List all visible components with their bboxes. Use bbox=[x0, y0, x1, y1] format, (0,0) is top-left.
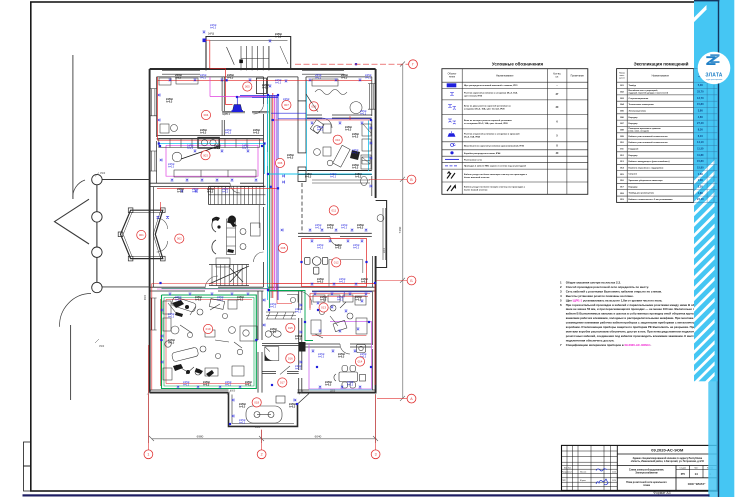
svg-text:8,30: 8,30 bbox=[698, 128, 704, 132]
svg-text:монтаже коробке расположив обе: монтаже коробке расположив обеспечить до… bbox=[566, 330, 702, 334]
svg-text:5,30: 5,30 bbox=[698, 83, 704, 87]
svg-text:Общие указания смотри на листа: Общие указания смотри на листах 2,3. bbox=[566, 280, 621, 284]
blue band right solid bbox=[708, 0, 719, 497]
svg-text:Щит распределительный навесной: Щит распределительный навесной с замком,… bbox=[464, 84, 518, 87]
binding marks bbox=[24, 442, 31, 466]
svg-text:ЩРБ-1: ЩРБ-1 bbox=[223, 113, 231, 116]
svg-text:розеточных кабелей, соединения: розеточных кабелей, соединения под кабел… bbox=[566, 334, 698, 338]
svg-text:Коробка распределительная, IP4: Коробка распределительная, IP44 bbox=[464, 152, 501, 155]
furniture rooms 015/016 bbox=[265, 295, 298, 361]
svg-text:h=0,3: h=0,3 bbox=[275, 36, 282, 39]
svg-text:14: 14 bbox=[695, 472, 699, 476]
svg-text:Способ прокладки розеточной се: Способ прокладки розеточной сети определ… bbox=[566, 285, 649, 289]
wire lilac loop room 014 bbox=[309, 322, 372, 390]
svg-text:Электроснабжение: Электроснабжение bbox=[635, 472, 658, 475]
svg-text:h=0,3: h=0,3 bbox=[357, 227, 364, 230]
svg-text:h=0,3: h=0,3 bbox=[289, 406, 296, 409]
svg-text:Розеточные сети: Розеточные сети bbox=[464, 159, 483, 161]
svg-text:яние не менее 50 мм, и при пер: яние не менее 50 мм, и при пересекающихс… bbox=[566, 307, 709, 311]
wire green loop room 019 bbox=[162, 295, 257, 389]
svg-text:13,70: 13,70 bbox=[697, 96, 704, 100]
svg-text:h=0,3: h=0,3 bbox=[327, 227, 334, 230]
furniture room 002 bbox=[212, 218, 260, 267]
building outer walls bbox=[150, 69, 387, 393]
svg-text:h=0,3: h=0,3 bbox=[245, 384, 252, 387]
svg-text:3: 3 bbox=[375, 453, 377, 457]
svg-text:011: 011 bbox=[331, 208, 336, 212]
svg-text:11.20: 11.20 bbox=[612, 480, 616, 482]
svg-text:Санузел: Санузел bbox=[629, 174, 638, 176]
svg-text:h=0,3: h=0,3 bbox=[355, 299, 362, 302]
svg-text:3xPШ: 3xPШ bbox=[208, 34, 214, 36]
svg-text:РП: РП bbox=[681, 472, 685, 476]
svg-text:h=0,3: h=0,3 bbox=[320, 299, 327, 302]
wire runs bbox=[152, 40, 375, 390]
svg-text:h=0,3: h=0,3 bbox=[325, 384, 332, 387]
logo circle bbox=[698, 52, 731, 85]
svg-text:Гардероб: Гардероб bbox=[629, 147, 640, 150]
svg-text:Кабинет рентгеновской стоматол: Кабинет рентгеновской стоматологии bbox=[629, 135, 669, 138]
band navy line bbox=[718, 0, 719, 497]
svg-text:ООО "ЗЛАТА": ООО "ЗЛАТА" bbox=[688, 482, 706, 486]
svg-text:Коридор: Коридор bbox=[629, 117, 639, 119]
svg-text:h=0,3: h=0,3 bbox=[200, 77, 207, 80]
svg-text:h=0,3: h=0,3 bbox=[175, 299, 182, 302]
svg-text:h=0,3: h=0,3 bbox=[192, 191, 199, 194]
svg-text:4,60: 4,60 bbox=[698, 115, 704, 119]
svg-text:1,60: 1,60 bbox=[698, 172, 704, 176]
svg-text:Тамбур для размещения: Тамбур для размещения bbox=[629, 192, 655, 195]
svg-text:шт.: шт. bbox=[556, 77, 560, 79]
svg-text:1,30: 1,30 bbox=[698, 178, 704, 182]
svg-text:Высоты установки розеток показ: Высоты установки розеток показаны на пла… bbox=[566, 294, 634, 298]
svg-text:27,40: 27,40 bbox=[697, 121, 704, 125]
wire cyan corridor run bbox=[268, 173, 372, 175]
svg-text:Кабель уходит на более высокую: Кабель уходит на более высокую отметку и… bbox=[464, 173, 528, 176]
logo Z glyphs bbox=[706, 54, 719, 65]
svg-text:h=0,3: h=0,3 bbox=[355, 176, 362, 179]
svg-text:цвет белый, IP20: цвет белый, IP20 bbox=[464, 95, 483, 98]
svg-text:003: 003 bbox=[203, 153, 208, 157]
svg-text:h=0,3: h=0,3 bbox=[295, 338, 302, 341]
interior walls bbox=[150, 77, 376, 393]
svg-text:область, Ивановский район, п.З: область, Ивановский район, п.Загорский, … bbox=[631, 460, 705, 463]
svg-text:h=0,3: h=0,3 bbox=[361, 281, 368, 284]
svg-text:h=0,3: h=0,3 bbox=[222, 191, 229, 194]
svg-text:h=0,3: h=0,3 bbox=[210, 27, 217, 30]
svg-text:2К+З, 16А, IP44: 2К+З, 16А, IP44 bbox=[464, 136, 481, 139]
svg-text:h=0,3: h=0,3 bbox=[352, 136, 359, 139]
svg-text:h=0,3: h=0,3 bbox=[175, 77, 182, 80]
svg-text:Стадия: Стадия bbox=[679, 467, 685, 469]
svg-text:Разработал: Разработал bbox=[562, 472, 572, 474]
svg-text:1500: 1500 bbox=[255, 427, 261, 429]
svg-text:h=0,3: h=0,3 bbox=[352, 167, 359, 170]
room number circles bbox=[137, 230, 146, 239]
svg-text:Коридор: Коридор bbox=[629, 155, 639, 157]
svg-text:14,10: 14,10 bbox=[697, 140, 704, 144]
svg-text:h=0,3: h=0,3 bbox=[353, 247, 360, 250]
svg-text:Тамбур: Тамбур bbox=[629, 84, 637, 87]
svg-text:Электрощитовая: Электрощитовая bbox=[629, 110, 647, 112]
svg-text:h=0,3: h=0,3 bbox=[341, 227, 348, 230]
svg-text:Розетка скрытой установки с шт: Розетка скрытой установки с шторками 2К+… bbox=[464, 92, 518, 95]
furniture room 019 bbox=[163, 296, 244, 380]
svg-text:h=0,3: h=0,3 bbox=[168, 166, 175, 169]
stair block top bbox=[206, 37, 291, 71]
svg-text:Лист: Лист bbox=[694, 467, 698, 469]
dark clusters room 019 bbox=[172, 300, 189, 317]
svg-text:студия проектирования: студия проектирования bbox=[706, 79, 723, 81]
svg-text:Спецификацию материалов прибор: Спецификацию материалов приборов в 09.20… bbox=[566, 343, 652, 347]
junction boxes bbox=[267, 94, 269, 96]
svg-text:Обозна-: Обозна- bbox=[448, 74, 457, 76]
legend symbols bbox=[445, 84, 459, 166]
svg-text:h=0,3: h=0,3 bbox=[168, 316, 175, 319]
svg-text:h=0,3: h=0,3 bbox=[335, 247, 342, 250]
furniture room 009 bbox=[306, 79, 362, 114]
svg-text:Кабинет стоматологии с 3-мя ус: Кабинет стоматологии с 3-мя установками bbox=[629, 198, 674, 201]
svg-text:h=0,3: h=0,3 bbox=[225, 384, 232, 387]
svg-text:h=0,3: h=0,3 bbox=[337, 299, 344, 302]
svg-text:Наименование: Наименование bbox=[652, 74, 670, 77]
svg-text:h=0,3: h=0,3 bbox=[207, 191, 214, 194]
svg-text:11,80: 11,80 bbox=[697, 153, 704, 157]
svg-text:4820: 4820 bbox=[145, 294, 147, 300]
svg-text:Кол.: Кол. bbox=[568, 467, 572, 469]
svg-text:6,10: 6,10 bbox=[698, 134, 704, 138]
svg-text:3,20: 3,20 bbox=[698, 184, 704, 188]
svg-text:019: 019 bbox=[206, 327, 211, 331]
table lines over band bbox=[694, 69, 718, 203]
svg-text:Иванов: Иванов bbox=[580, 472, 586, 474]
svg-text:этажа: этажа bbox=[643, 484, 651, 487]
footer navy line bbox=[23, 494, 710, 496]
svg-text:7460: 7460 bbox=[398, 226, 402, 233]
svg-text:h=0,3: h=0,3 bbox=[239, 422, 246, 425]
svg-text:Здание специализированной клин: Здание специализированной клиники по адр… bbox=[633, 457, 703, 460]
svg-text:15,80: 15,80 bbox=[697, 165, 704, 169]
svg-text:h=0,3: h=0,3 bbox=[287, 157, 294, 160]
svg-text:h=0,3: h=0,3 bbox=[214, 147, 221, 150]
svg-text:Условные обозначения: Условные обозначения bbox=[492, 62, 544, 67]
svg-text:1: 1 bbox=[147, 453, 149, 457]
svg-text:h=0,3: h=0,3 bbox=[341, 77, 348, 80]
riser bundle bbox=[268, 93, 278, 308]
svg-text:014: 014 bbox=[358, 360, 363, 364]
svg-text:h=0,3: h=0,3 bbox=[237, 299, 244, 302]
svg-text:h=0,3: h=0,3 bbox=[242, 147, 249, 150]
black furniture blobs room 002 bbox=[212, 216, 237, 229]
red axis connectors bbox=[148, 64, 408, 450]
svg-text:h=0,3: h=0,3 bbox=[305, 176, 312, 179]
svg-text:007: 007 bbox=[284, 103, 289, 107]
misc black leaders bbox=[306, 94, 371, 133]
svg-text:со шторками 2К+З, 16А, цвет бе: со шторками 2К+З, 16А, цвет белый, IP20 bbox=[464, 122, 508, 125]
furniture room 018 bbox=[246, 396, 285, 423]
svg-text:012: 012 bbox=[334, 260, 339, 264]
furniture room 003 counter bbox=[159, 138, 260, 342]
svg-text:h=0,3: h=0,3 bbox=[168, 342, 175, 345]
svg-text:013: 013 bbox=[321, 306, 326, 310]
svg-text:h=0,3: h=0,3 bbox=[318, 356, 325, 359]
svg-text:Коридор: Коридор bbox=[629, 186, 639, 188]
svg-text:Выключатель скрытой установки: Выключатель скрытой установки одноклавиш… bbox=[464, 145, 525, 148]
svg-text:017: 017 bbox=[280, 381, 285, 385]
svg-text:h=0,3: h=0,3 bbox=[317, 281, 324, 284]
svg-text:Коридор: Коридор bbox=[629, 123, 639, 125]
svg-text:3,80: 3,80 bbox=[698, 109, 704, 113]
svg-text:h=0,3: h=0,3 bbox=[365, 77, 372, 80]
svg-text:коробами. Отключающие приборы: коробами. Отключающие приборы защитного … bbox=[566, 325, 696, 329]
small dim texts bbox=[99, 173, 386, 429]
svg-text:Кол-во,: Кол-во, bbox=[553, 74, 561, 76]
svg-text:1500: 1500 bbox=[99, 346, 105, 348]
svg-text:h=0,3: h=0,3 bbox=[270, 306, 277, 309]
svg-text:001: 001 bbox=[139, 233, 144, 237]
svg-text:008: 008 bbox=[281, 246, 286, 250]
svg-text:Г: Г bbox=[412, 63, 414, 67]
svg-text:11,50: 11,50 bbox=[697, 146, 704, 150]
svg-text:15,80: 15,80 bbox=[697, 159, 704, 163]
svg-text:Щит ЩРБ-1 устанавливать на выс: Щит ЩРБ-1 устанавливать на высоте 1,8м о… bbox=[566, 298, 663, 302]
door arcs bbox=[157, 104, 350, 374]
svg-text:h=0,3: h=0,3 bbox=[183, 384, 190, 387]
svg-text:Хранение уборочного инвентаря: Хранение уборочного инвентаря bbox=[629, 179, 664, 182]
entrance protrusion 018 bbox=[229, 393, 310, 427]
svg-text:015: 015 bbox=[288, 326, 293, 330]
svg-text:h=0,3: h=0,3 bbox=[217, 299, 224, 302]
svg-text:h=0,3: h=0,3 bbox=[225, 132, 232, 135]
svg-text:h=0,3: h=0,3 bbox=[270, 331, 277, 334]
svg-text:h=0,3: h=0,3 bbox=[295, 311, 302, 314]
svg-text:h=0,3: h=0,3 bbox=[338, 356, 345, 359]
svg-text:h=0,3: h=0,3 bbox=[262, 87, 269, 90]
svg-text:Примечание: Примечание bbox=[571, 76, 585, 78]
svg-text:002: 002 bbox=[177, 237, 182, 241]
svg-text:h=0,3: h=0,3 bbox=[347, 384, 354, 387]
socket above stair bbox=[203, 39, 207, 43]
svg-text:более низкой отметки: более низкой отметки bbox=[464, 189, 488, 192]
svg-text:Кабинет заведующего (рентгенка: Кабинет заведующего (рентгенкабинет) bbox=[629, 160, 670, 163]
svg-text:более высокой отметки: более высокой отметки bbox=[464, 176, 490, 179]
svg-text:33,70: 33,70 bbox=[697, 90, 704, 94]
svg-text:h=0,3: h=0,3 bbox=[360, 113, 367, 116]
svg-text:6980: 6980 bbox=[197, 435, 204, 439]
svg-text:Комната персонала с гардеробом: Комната персонала с гардеробом bbox=[629, 166, 664, 169]
svg-text:Блок из двух розеток скрытой у: Блок из двух розеток скрытой установки с… bbox=[464, 104, 512, 107]
svg-text:15,80: 15,80 bbox=[697, 102, 704, 106]
svg-text:h=0,3: h=0,3 bbox=[345, 129, 352, 132]
svg-text:09.2020-АС-ЭОМ: 09.2020-АС-ЭОМ bbox=[651, 448, 684, 453]
svg-text:h=0,3: h=0,3 bbox=[315, 227, 322, 230]
svg-text:h=0,3: h=0,3 bbox=[352, 152, 359, 155]
svg-text:4,80: 4,80 bbox=[698, 191, 704, 195]
svg-text:Розетка открытой установки с ш: Розетка открытой установки с шторками и … bbox=[464, 133, 520, 136]
blue band inner bbox=[694, 0, 719, 381]
svg-text:h=0,3: h=0,3 bbox=[275, 82, 282, 85]
boiler in bay bbox=[377, 215, 384, 222]
wire magenta loop room 003 bbox=[166, 145, 258, 176]
svg-text:Проводка в кабеле ПВС скрыто в: Проводка в кабеле ПВС скрыто в стенах по… bbox=[464, 165, 527, 168]
furniture room 013 bbox=[311, 295, 367, 338]
closet partition room 012 bbox=[329, 260, 363, 288]
svg-text:004: 004 bbox=[204, 113, 209, 117]
svg-text:Техническое помещение: Техническое помещение bbox=[629, 104, 655, 106]
svg-text:006: 006 bbox=[278, 161, 283, 165]
hexagon tambour 001 bbox=[118, 208, 165, 261]
svg-text:2900: 2900 bbox=[384, 247, 386, 253]
svg-text:h=0,3: h=0,3 bbox=[200, 132, 207, 135]
svg-text:Стерилизационная: Стерилизационная bbox=[629, 98, 649, 100]
svg-text:h=0,3: h=0,3 bbox=[187, 147, 194, 150]
svg-text:h=0,3: h=0,3 bbox=[317, 129, 324, 132]
svg-text:Экспликация помещений: Экспликация помещений bbox=[634, 62, 689, 67]
windows bbox=[150, 71, 386, 330]
svg-text:2: 2 bbox=[261, 453, 263, 457]
svg-text:24,10: 24,10 bbox=[697, 197, 704, 201]
svg-text:h=0,3: h=0,3 bbox=[339, 281, 346, 284]
svg-text:h=0,3: h=0,3 bbox=[203, 384, 210, 387]
furniture room 011 bbox=[312, 180, 370, 183]
dimension lines bbox=[148, 62, 405, 444]
svg-text:h=0,3: h=0,3 bbox=[177, 191, 184, 194]
svg-text:Формат А3: Формат А3 bbox=[653, 491, 670, 495]
svg-text:гардероб. верхней одежды и пос: гардероб. верхней одежды и посетителей bbox=[629, 92, 669, 95]
svg-text:11.20: 11.20 bbox=[612, 472, 616, 474]
furniture room 012 bbox=[305, 257, 328, 274]
svg-text:шторками 2К+З, 16А, цвет белый: шторками 2К+З, 16А, цвет белый, IP20 bbox=[464, 108, 505, 111]
distribution panel SCHRB-1 bbox=[233, 105, 243, 112]
svg-text:018: 018 bbox=[254, 400, 259, 404]
title block bbox=[562, 445, 718, 490]
svg-text:щения: щения bbox=[619, 78, 625, 80]
svg-text:h=0,3: h=0,3 bbox=[195, 299, 202, 302]
svg-text:h=0,3: h=0,3 bbox=[253, 132, 260, 135]
lower stair bbox=[209, 265, 249, 286]
svg-text:h=0,3: h=0,3 bbox=[227, 77, 234, 80]
svg-text:005: 005 bbox=[245, 85, 250, 89]
svg-text:Блок из четырех розеток скрыто: Блок из четырех розеток скрытой установк… bbox=[464, 119, 512, 122]
svg-text:016: 016 bbox=[288, 356, 293, 360]
svg-text:Сеть кабелей с розетками Выпол: Сеть кабелей с розетками Выполнять кабел… bbox=[566, 289, 662, 293]
svg-text:ЗЛАТА: ЗЛАТА bbox=[705, 73, 722, 79]
svg-text:подключения обеспечить доступ.: подключения обеспечить доступ. bbox=[566, 339, 615, 343]
svg-text:6040: 6040 bbox=[315, 435, 322, 439]
svg-text:совмещение клеммами рабочих ка: совмещение клеммами рабочих кабеля прибо… bbox=[566, 321, 702, 325]
svg-text:Кабель уходит на более низкую: Кабель уходит на более низкую отметку ил… bbox=[464, 185, 526, 188]
socket symbols bbox=[169, 79, 172, 81]
furniture room 004 bbox=[159, 78, 198, 133]
svg-text:h=0,3: h=0,3 bbox=[295, 368, 302, 371]
svg-text:(люм. ламп, отходов): (люм. ламп, отходов) bbox=[629, 131, 649, 133]
svg-text:1500: 1500 bbox=[100, 173, 106, 175]
furniture room 010 bbox=[310, 120, 371, 186]
mid stair bbox=[209, 186, 266, 204]
svg-text:Юрьев: Юрьев bbox=[580, 480, 586, 482]
svg-text:Кабинет рентгеновской стоматол: Кабинет рентгеновской стоматологии bbox=[629, 141, 669, 144]
svg-text:Наименование: Наименование bbox=[496, 75, 514, 78]
svg-text:каналами рабочих клеммами, хол: каналами рабочих клеммами, холодных и ра… bbox=[566, 316, 712, 320]
band diagonal stripes bbox=[694, 5, 715, 397]
svg-text:3200: 3200 bbox=[330, 391, 336, 393]
porch / left structures bbox=[55, 55, 150, 400]
svg-text:кабеля В Выполняемых каналах и: кабеля В Выполняемых каналах и шахтах в … bbox=[566, 312, 697, 316]
svg-text:h=0,3: h=0,3 bbox=[317, 247, 324, 250]
axis circles bbox=[144, 450, 153, 459]
wire red loop room 012 bbox=[302, 239, 367, 287]
svg-text:чение: чение bbox=[449, 77, 456, 79]
svg-text:h=0,3: h=0,3 bbox=[166, 101, 173, 104]
svg-text:h=0,3: h=0,3 bbox=[239, 406, 246, 409]
furniture room 014 bbox=[334, 345, 366, 389]
svg-text:010: 010 bbox=[335, 138, 340, 142]
signatures bbox=[596, 469, 607, 471]
svg-text:h=0,3: h=0,3 bbox=[315, 77, 322, 80]
svg-text:h=0,3: h=0,3 bbox=[330, 176, 337, 179]
